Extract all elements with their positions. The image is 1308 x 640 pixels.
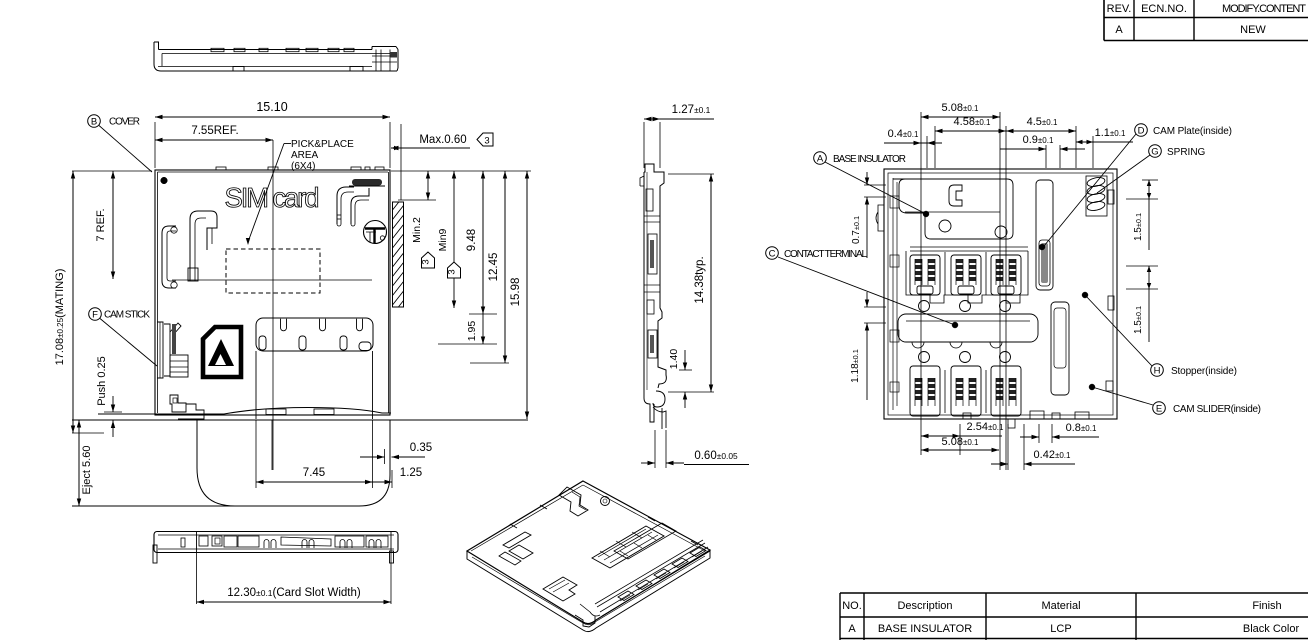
isometric view side walls [467,550,710,632]
svg-text:AREA: AREA [291,150,319,161]
top right bent terminal tubes [337,187,354,224]
label A BASE INSULATOR [814,152,827,165]
dim 1.25 [373,481,393,483]
svg-text:NO.: NO. [842,600,862,612]
eject lever parts [170,395,186,412]
dim 15.10 [155,116,390,118]
svg-text:3: 3 [447,269,458,274]
right view pin bar [910,246,1028,248]
contact centerline [172,279,372,281]
isometric bottom feet [575,615,595,627]
svg-text:SPRING: SPRING [1167,147,1206,158]
svg-text:15.10: 15.10 [256,100,287,114]
chamber C cutout [949,185,962,206]
cam plate slot [1036,180,1053,290]
svg-text:0.60±0.05: 0.60±0.05 [694,450,738,462]
dim 1.5 lower right [1126,265,1158,267]
svg-text:Min.2: Min.2 [411,217,423,243]
top side view top notches [211,48,224,51]
svg-text:Max.0.60: Max.0.60 [419,134,466,146]
isometric lower right rail [595,540,710,616]
isometric extra slats [614,523,676,559]
svg-text:Finish: Finish [1252,600,1281,612]
svg-text:CAM STICK: CAM STICK [104,310,150,321]
isometric view outline [467,481,710,624]
main body bottom edge [98,408,391,415]
cam stick parts [157,322,163,378]
svg-text:A: A [817,153,824,164]
spring coil [1086,176,1105,212]
bottom side view terminal feet [264,540,276,549]
svg-text:1.27±0.1: 1.27±0.1 [672,104,711,116]
label G SPRING [1149,145,1162,158]
dim 7.55REF [155,139,273,141]
svg-text:7.45: 7.45 [303,467,325,479]
isometric top clip [559,487,588,516]
dim 0.35 [360,456,385,458]
right view upper-left chamber [893,179,1013,239]
svg-text:LCP: LCP [1050,623,1071,635]
svg-text:9.48: 9.48 [466,229,478,251]
SIM orientation icon [203,327,241,377]
top side view inner lines [162,53,390,55]
dim 7.45 [256,481,373,483]
dim 12.45 [504,171,506,363]
right view left rail details [892,178,894,410]
dim 9.48 [482,171,484,314]
inspection hole circle [364,221,387,244]
bottom side view inner details [181,538,185,547]
middle side view outline [644,164,666,388]
svg-text:1.5±0.1: 1.5±0.1 [1133,306,1144,334]
hatch strip right [393,202,404,307]
middle contact bar [898,314,1038,342]
isometric screw circle [601,497,610,506]
svg-text:CAM SLIDER(inside): CAM SLIDER(inside) [1173,404,1261,415]
dim Min.2 flag [427,171,429,200]
svg-text:12.45: 12.45 [488,253,500,282]
svg-text:7 REF.: 7 REF. [95,208,107,241]
svg-text:B: B [91,116,97,127]
svg-text:H: H [1154,365,1161,376]
dim Min9 flag [453,171,455,308]
bottom side view legs [153,545,157,563]
dim 1.95 [482,314,484,344]
svg-text:E: E [1156,403,1162,414]
svg-text:NEW: NEW [1240,24,1266,36]
bottom side view outline [154,532,398,553]
label F CAM STICK [89,308,102,321]
dim Max 0.60 with flag 3 [391,147,470,149]
bottom small windows [266,409,286,415]
dim 0.7 left [864,184,886,186]
bottom edge steps [1030,411,1044,419]
svg-text:3: 3 [484,136,489,147]
svg-text:Push 0.25: Push 0.25 [96,356,108,406]
tray side lines [255,351,257,419]
svg-text:BASE INSULATOR: BASE INSULATOR [878,623,972,635]
svg-text:Black Color: Black Color [1243,623,1300,635]
svg-text:G: G [1151,146,1158,157]
svg-text:7.55REF.: 7.55REF. [191,125,238,137]
middle side view bottom pin [644,390,654,422]
revision table [1104,0,1308,41]
terminal comb dividers [944,252,946,295]
dim 1.18 left [864,306,886,308]
svg-text:1.1±0.1: 1.1±0.1 [1095,127,1126,139]
svg-text:1.18±0.1: 1.18±0.1 [850,349,861,383]
dim 0.42 bottom [1007,424,1009,470]
dim 15.98 [526,171,528,419]
chamber circles [939,220,951,232]
isometric cam stick [543,577,577,601]
dim 0.8 bottom [1038,424,1040,443]
svg-text:A: A [1115,24,1123,36]
upper terminal row [910,255,940,295]
svg-text:A: A [848,623,856,635]
svg-text:COVER: COVER [109,117,140,128]
svg-text:Min9: Min9 [437,228,449,251]
card guide with slots [256,318,373,351]
svg-text:PICK&PLACE: PICK&PLACE [291,139,354,150]
dim 5.08 bottom [921,449,999,451]
right edge tabs [1108,190,1114,204]
label D CAM Plate [1135,124,1148,137]
svg-text:4.5±0.1: 4.5±0.1 [1027,116,1058,128]
cam slider slot [1051,302,1069,395]
top side view outline [154,42,397,71]
main view top edge clips [216,167,226,170]
svg-text:0.4±0.1: 0.4±0.1 [888,128,919,140]
svg-text:17.08±0.25(MATING): 17.08±0.25(MATING) [54,269,66,366]
dim 0.4 [884,142,942,144]
svg-text:REV.: REV. [1107,3,1132,15]
svg-text:12.30±0.1(Card Slot Width): 12.30±0.1(Card Slot Width) [227,587,361,599]
dim 4.5 [1075,126,1077,168]
svg-text:0.35: 0.35 [410,442,432,454]
svg-text:0.7±0.1: 0.7±0.1 [851,216,862,244]
parts table [840,593,1308,640]
svg-text:F: F [92,309,98,320]
svg-text:D: D [1138,125,1145,136]
svg-text:(6X4): (6X4) [291,161,315,172]
dim 0.60 [654,430,656,468]
right view left edge part [876,205,884,231]
svg-text:5.08±0.1: 5.08±0.1 [942,436,979,448]
svg-text:15.98: 15.98 [510,278,522,307]
dim 7 REF [112,171,114,279]
lower terminal row [919,352,930,363]
mating line long [72,419,528,421]
isometric right edge teeth [618,591,634,601]
vertical centerline 7.55 [272,140,274,470]
dim Eject 5.60 [78,420,80,506]
dim 12.30 card slot width [196,552,198,604]
isometric top right edge marks [510,505,698,545]
isometric slotted plate [592,526,664,568]
label E CAM SLIDER [1153,402,1166,415]
dim 17.08 MATING [72,171,74,433]
dim 2.54 bottom [959,424,961,455]
svg-text:1.25: 1.25 [400,467,422,479]
upper row comb outline [906,251,1028,303]
right view outer body [884,169,1117,419]
svg-text:Stopper(inside): Stopper(inside) [1171,366,1237,377]
leader dots [923,211,929,217]
hook latch detail [190,211,217,281]
dim 4.58 [934,126,936,168]
label H Stopper [1151,364,1164,377]
svg-text:Eject 5.60: Eject 5.60 [81,446,93,495]
top side view feet [233,67,244,72]
svg-text:5.08±0.1: 5.08±0.1 [942,102,979,114]
svg-text:MODIFY.CONTENT: MODIFY.CONTENT [1222,3,1306,15]
svg-text:4.58±0.1: 4.58±0.1 [954,116,991,128]
svg-text:3: 3 [421,259,432,264]
svg-text:0.42±0.1: 0.42±0.1 [1034,449,1071,461]
svg-text:1.40: 1.40 [668,349,680,370]
svg-text:SIM card: SIM card [225,182,320,213]
svg-text:2.54±0.1: 2.54±0.1 [967,421,1004,433]
svg-text:ECN.NO.: ECN.NO. [1141,3,1187,15]
dim 1.5 upper right [1142,179,1158,181]
dim 14.38typ [710,174,712,392]
svg-text:1.5±0.1: 1.5±0.1 [1133,213,1144,241]
svg-text:0.8±0.1: 0.8±0.1 [1066,422,1097,434]
isometric left brackets [503,532,531,548]
left bracket detail [162,226,176,288]
eject bottom ext line [72,505,238,507]
card outline [197,420,390,506]
label B COVER [88,115,101,128]
dim 1.1 [1092,136,1094,168]
svg-text:14.38typ.: 14.38typ. [694,256,706,303]
label C CONTACT TERMINAL [766,247,779,260]
dark contact bar [352,179,382,186]
dim 1.40 [684,350,686,370]
svg-text:CONTACT TERMINAL: CONTACT TERMINAL [784,249,867,260]
svg-text:1.95: 1.95 [466,321,478,342]
dim Push 0.25 [112,396,114,412]
svg-text:0.9±0.1: 0.9±0.1 [1023,134,1054,146]
top side view right end block [375,50,377,72]
svg-text:C: C [769,248,776,259]
dim 1.27 [644,118,660,120]
svg-text:CAM Plate(inside): CAM Plate(inside) [1153,126,1232,137]
main view outer body [155,170,390,415]
svg-text:Description: Description [897,600,952,612]
dim 0.9 [1045,145,1047,168]
bottom edge feet [1008,419,1015,428]
svg-text:Material: Material [1041,600,1080,612]
dim 5.08 top [920,112,922,455]
svg-text:BASE INSULATOR: BASE INSULATOR [833,154,906,165]
pick and place dashed area [226,249,320,293]
cover corner dot [161,177,168,184]
middle side view inner details [646,172,648,390]
